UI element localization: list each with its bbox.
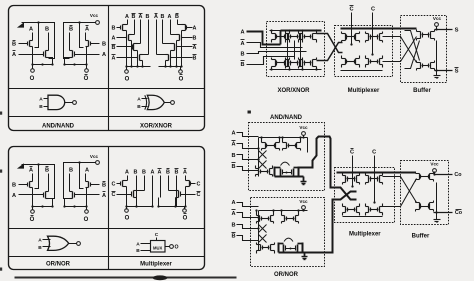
transistor pair MB1 <box>346 60 348 64</box>
wire and bold bottom bus <box>275 176 304 178</box>
transistor X8 <box>170 56 172 60</box>
wire xor gate lead <box>117 46 133 48</box>
wire Q4 drain link <box>70 50 73 52</box>
transistor pair AB1 <box>260 170 262 174</box>
wire Q1 source drop <box>32 47 34 65</box>
transistor pair BUF1 <box>422 33 424 38</box>
wire xor gate lead r <box>187 27 192 29</box>
transistor pair MC1 <box>347 177 349 182</box>
wire xor drain vertical r <box>156 20 158 55</box>
scan artifact bottom smudge <box>15 277 237 279</box>
transistor Q3 <box>90 183 92 187</box>
wire gate lead Q4 <box>75 194 100 196</box>
wire Sbar line <box>435 70 453 72</box>
transistor Q2 <box>43 52 45 57</box>
wire xor inner vertical 3 <box>294 41 296 60</box>
wire C drop <box>372 13 374 55</box>
wire xor top bus <box>270 30 281 32</box>
cross coupling X1 and <box>259 151 267 159</box>
wire mux source drop r <box>185 187 187 207</box>
table 1 row divider upper <box>9 88 205 90</box>
wire Q2 source drop <box>49 199 53 207</box>
wire xor output cross lower <box>317 43 343 61</box>
ground and box <box>301 181 307 183</box>
wire xor drain link <box>140 54 149 56</box>
svg-text:A: A <box>12 52 16 58</box>
svg-text:AND/NAND: AND/NAND <box>270 115 303 121</box>
power flag symbol <box>17 163 24 168</box>
svg-text:O: O <box>183 216 188 222</box>
transistor pair MA1 <box>346 35 348 40</box>
svg-text:B: B <box>136 248 140 254</box>
transistor M1 <box>120 182 122 186</box>
wire mux source drop <box>126 187 128 207</box>
wire xor source drop r <box>176 41 178 67</box>
wire drain riser 4 <box>85 174 87 182</box>
ground buffer top <box>434 75 441 77</box>
wire xor source drop r <box>181 31 183 67</box>
svg-text:O: O <box>84 217 89 223</box>
wire xor source drop r <box>170 51 172 67</box>
transistor pair XB1 <box>276 61 278 66</box>
wire rail corner drop right <box>64 169 70 199</box>
wire input B <box>247 52 307 54</box>
wire xor drain link <box>134 43 141 45</box>
svg-text:A: A <box>193 26 197 32</box>
wire Cobar line <box>434 212 453 214</box>
wire xor drain vertical r <box>162 20 164 44</box>
svg-text:C: C <box>112 182 116 188</box>
table 2 row divider upper <box>9 228 205 230</box>
wire input lead <box>237 144 259 149</box>
transistor pair BUF4 <box>420 204 422 209</box>
wire input lead <box>237 203 259 207</box>
wire mux drain vertical r <box>160 176 162 198</box>
wire Q2 source drop <box>49 58 53 65</box>
svg-text:C: C <box>372 150 376 156</box>
wire mux drain link <box>123 180 128 182</box>
svg-text:A: A <box>136 241 140 247</box>
transistor X2 <box>126 36 128 40</box>
transistor pair XA2 <box>290 35 292 39</box>
svg-text:A: A <box>29 27 33 33</box>
wire xor drain vertical r <box>177 20 179 25</box>
transistor pair MD2 <box>370 208 372 212</box>
svg-text:B: B <box>137 104 141 110</box>
svg-text:A: A <box>231 131 235 137</box>
wire rail drop 1 <box>35 23 39 48</box>
wire input Bbar <box>247 57 295 65</box>
svg-text:B: B <box>45 27 49 33</box>
wire Vcc rail left segment <box>22 165 55 169</box>
svg-text:A: A <box>139 14 143 20</box>
wire Cbar drop <box>351 13 353 45</box>
wire xor drain vertical <box>134 20 136 35</box>
transistor pair MD1 <box>347 208 349 212</box>
wire mux2 out 2 <box>383 179 417 207</box>
wire drain riser 2 <box>48 174 50 192</box>
table 2 row divider lower <box>9 256 205 258</box>
wire or bold bottom bus <box>279 252 305 254</box>
wire bold NAND output <box>299 137 357 200</box>
wire mux source drop <box>136 198 138 207</box>
transistor X3 <box>132 45 134 50</box>
svg-text:Vcc: Vcc <box>299 199 308 204</box>
wire input A <box>247 32 281 45</box>
wire Vcc drop buffer <box>436 27 438 30</box>
wire rail corner drop <box>49 29 55 59</box>
svg-text:B: B <box>69 27 73 33</box>
wire Q2 drain link <box>46 191 49 193</box>
wire xor output cross upper <box>317 34 343 53</box>
svg-text:A: A <box>193 45 197 51</box>
wire S line <box>435 29 453 31</box>
wire xor gate lead r <box>177 46 192 48</box>
svg-text:A: A <box>38 238 42 244</box>
wire input lead <box>237 225 259 229</box>
svg-text:Vcc: Vcc <box>90 13 99 18</box>
svg-text:C: C <box>112 192 116 198</box>
table 2 column divider <box>108 147 110 270</box>
wire xor gate lead r <box>182 37 192 39</box>
Multiplexer dashed box (bottom right) <box>335 168 395 223</box>
wire gate lead Q2 <box>19 54 44 56</box>
svg-text:Multiplexer: Multiplexer <box>140 262 172 268</box>
wire gate lead Q3 <box>91 43 100 45</box>
svg-text:O: O <box>84 76 89 82</box>
svg-text:A: A <box>137 97 141 103</box>
svg-text:Buffer: Buffer <box>412 234 430 240</box>
svg-text:B: B <box>175 14 179 20</box>
svg-text:Multiplexer: Multiplexer <box>349 232 381 238</box>
transistor pair OB1 <box>262 246 264 250</box>
wire mux drain vertical <box>136 176 138 187</box>
wire mux source drop r <box>175 198 177 207</box>
svg-text:MUX: MUX <box>153 245 163 250</box>
wire input lead <box>237 155 259 160</box>
wire xor source drop <box>142 61 144 67</box>
wire vcc drop or <box>303 210 305 211</box>
transistor Q4 <box>74 52 76 57</box>
svg-text:A: A <box>12 193 16 199</box>
wire input Abar <box>247 43 303 48</box>
wire drain riser 2 <box>48 33 50 51</box>
wire Q3 source drop <box>86 47 87 65</box>
svg-text:A: A <box>240 30 244 36</box>
transistor X6 <box>181 36 183 40</box>
svg-text:A: A <box>125 14 129 20</box>
Buffer dashed box (top right) <box>401 16 447 83</box>
svg-text:Buffer: Buffer <box>413 88 431 94</box>
wire mux feed verticals left <box>136 187 138 207</box>
wire xor output bus right <box>159 66 182 68</box>
svg-text:O: O <box>30 76 35 82</box>
wire input lead <box>237 133 259 137</box>
node output O right <box>86 65 88 69</box>
svg-text:A: A <box>154 14 158 20</box>
Buffer dashed box (bottom right) <box>401 161 449 225</box>
transistor M4 <box>180 192 182 197</box>
svg-text:A: A <box>240 41 244 47</box>
node xor output Obar <box>180 67 182 70</box>
table 1 border <box>9 6 205 131</box>
wire Q1 drain link <box>30 181 33 183</box>
svg-text:B: B <box>134 170 138 176</box>
transistor pair MA2 <box>370 35 372 40</box>
power flag symbol <box>17 22 24 27</box>
wire rail drop 1 <box>35 165 39 189</box>
svg-text:B: B <box>12 42 16 48</box>
svg-text:A: A <box>112 36 116 42</box>
svg-text:Multiplexer: Multiplexer <box>348 88 380 94</box>
svg-text:OR/NOR: OR/NOR <box>274 272 299 278</box>
svg-text:A: A <box>168 14 172 20</box>
svg-text:A: A <box>151 170 155 176</box>
wire input A bold riser <box>280 31 282 45</box>
wire input lead <box>237 236 259 241</box>
wire mux drain link <box>134 190 145 192</box>
wire mux2 bottom bus <box>343 216 383 218</box>
svg-text:B: B <box>231 223 235 229</box>
transistor pair AB2 bold H-frame <box>274 167 276 177</box>
svg-text:B: B <box>142 170 146 176</box>
wire rail corner drop <box>49 169 55 199</box>
wire Cbar drop bottom <box>352 156 354 187</box>
svg-text:O: O <box>179 77 184 83</box>
svg-text:Vcc: Vcc <box>90 154 99 159</box>
wire and right vertical <box>307 138 309 153</box>
svg-text:B: B <box>166 170 170 176</box>
node xor output O <box>126 67 128 70</box>
transistor pair OB2 bold H-frame <box>278 243 280 253</box>
wire mux drain vertical r <box>176 176 178 187</box>
wire output bus right <box>65 64 87 66</box>
svg-text:A: A <box>85 168 89 174</box>
wire xor top bus bold <box>281 30 322 32</box>
transistor X1 <box>120 26 122 30</box>
OR/NOR dashed box <box>251 198 325 267</box>
wire drain riser <box>32 33 34 41</box>
transistor pair OA2 <box>286 217 288 221</box>
wire rail drop 2 <box>80 163 84 189</box>
XOR/XNOR dashed box (top right) <box>267 22 325 77</box>
svg-text:A: A <box>125 170 129 176</box>
wire Vcc drop buffer 2 <box>434 172 436 175</box>
wire buffer2 right vertical <box>436 183 438 220</box>
wire and left vertical <box>258 138 260 177</box>
wire bold NOR output <box>303 192 357 253</box>
svg-text:C: C <box>349 7 353 13</box>
svg-text:B: B <box>175 170 179 176</box>
svg-text:B: B <box>193 56 197 62</box>
transistor X4 <box>137 56 139 60</box>
transistor Q3 <box>90 42 92 46</box>
wire C drop bottom <box>374 156 376 203</box>
cross coupling X2 and <box>259 161 267 169</box>
wire mux drain vertical <box>127 176 129 181</box>
Multiplexer dashed box (top right) <box>335 26 393 77</box>
wire buffer cross 1 <box>405 31 420 61</box>
svg-text:B: B <box>112 45 116 51</box>
node mux output Obar <box>184 207 186 210</box>
node mux output O <box>126 207 128 210</box>
transistor M2 <box>131 192 133 197</box>
wire drain riser 4 <box>85 33 87 41</box>
wire xor drain vertical r <box>170 20 172 35</box>
svg-text:C: C <box>350 150 354 156</box>
svg-text:S: S <box>455 28 459 34</box>
wire mux top bus bold <box>341 28 383 30</box>
ground or box <box>302 256 308 258</box>
wire drain riser <box>32 174 34 182</box>
node output O left <box>32 65 34 69</box>
wire gate lead Q1 <box>19 43 28 45</box>
wire vcc drop and <box>303 136 305 138</box>
svg-text:A: A <box>231 200 235 206</box>
svg-text:B: B <box>231 153 235 159</box>
transistor pair MB2 <box>370 60 372 64</box>
wire xor gate lead <box>117 27 121 29</box>
transistor Q2 <box>43 193 45 198</box>
transistor Q4 <box>74 193 76 198</box>
svg-text:C: C <box>197 182 201 188</box>
table 2 border <box>9 147 205 270</box>
transistor pair BUF2 <box>422 64 424 68</box>
svg-text:AND/NAND: AND/NAND <box>42 124 75 130</box>
svg-text:A: A <box>231 142 235 148</box>
wire gate lead Q4 <box>75 54 100 56</box>
svg-text:B: B <box>146 14 150 20</box>
transistor pair OA1 <box>261 217 263 221</box>
svg-text:A: A <box>102 52 106 58</box>
wire mux drain vertical r <box>168 176 170 191</box>
svg-text:Co: Co <box>454 172 462 178</box>
wire mux drain vertical <box>152 176 154 198</box>
svg-text:B: B <box>45 168 49 174</box>
svg-text:C: C <box>371 7 375 13</box>
wire xor gate lead <box>117 37 127 39</box>
scan artifact dot <box>248 111 251 114</box>
wire mux feed verticals right <box>176 187 178 207</box>
svg-text:B: B <box>240 62 244 68</box>
svg-text:A: A <box>85 27 89 33</box>
svg-text:A: A <box>231 211 235 217</box>
wire mux2 out 1 <box>383 177 417 203</box>
wire Q4 source drop <box>65 199 70 207</box>
wire xor drain link <box>123 24 128 26</box>
wire mux gate lead r <box>191 183 196 185</box>
svg-text:S: S <box>455 69 459 75</box>
wire xor source drop <box>137 51 139 67</box>
scan artifact left ticks <box>0 112 2 115</box>
wire xor source drop <box>126 31 128 67</box>
wire xor drain link r <box>171 34 180 36</box>
wire rail corner drop right <box>64 29 70 59</box>
wire Q1 source drop <box>32 188 34 207</box>
transistor Q1 <box>27 42 29 46</box>
wire Q4 drain link <box>70 191 73 193</box>
wire mux gate lead <box>117 194 132 196</box>
transistor pair AA2 <box>288 144 290 148</box>
wire Vcc rail right segment <box>64 163 96 169</box>
wire mux drain link r <box>186 180 190 182</box>
wire or top bus <box>259 210 308 212</box>
svg-text:B: B <box>69 168 73 174</box>
wire buffer cross 2 <box>405 41 420 69</box>
svg-text:B: B <box>132 14 136 20</box>
wire mux drain vertical r <box>185 176 187 181</box>
cross coupling X1 or <box>259 225 267 233</box>
node output O left <box>32 207 34 210</box>
svg-text:B: B <box>193 36 197 42</box>
wire mux gate lead r <box>181 194 196 196</box>
wire gate lead Q3 <box>91 184 100 186</box>
wire or left vertical <box>258 211 260 251</box>
wire xor output bus left <box>127 66 151 68</box>
wire Q3 drain link <box>86 40 89 42</box>
wire xor source drop r <box>165 61 167 67</box>
svg-text:B: B <box>231 164 235 170</box>
wire mux-buffer bold <box>383 28 417 30</box>
transistor pair MC2 <box>370 177 372 182</box>
wire mux out 1 <box>383 37 417 63</box>
svg-text:A: A <box>183 170 187 176</box>
svg-text:O: O <box>174 245 178 251</box>
svg-text:Vcc: Vcc <box>430 162 439 167</box>
wire xor drain link r <box>163 43 175 45</box>
svg-text:C: C <box>155 232 159 238</box>
wire Q3 drain link <box>86 181 89 183</box>
svg-text:O: O <box>125 77 130 83</box>
wire Q2 drain link <box>46 50 49 52</box>
wire xor drain link <box>129 34 135 36</box>
svg-text:A: A <box>39 97 43 103</box>
svg-text:C: C <box>197 192 201 198</box>
wire Vcc rail left segment <box>22 23 55 29</box>
svg-text:Vcc: Vcc <box>433 16 442 21</box>
AND/NAND dashed box <box>249 123 325 191</box>
wire output bus left <box>33 64 53 66</box>
transistor pair XB2 <box>290 61 292 66</box>
svg-text:B: B <box>112 26 116 32</box>
wire xor drain link r <box>178 24 186 26</box>
wire Q1 drain link <box>30 40 33 42</box>
svg-text:B: B <box>102 42 106 48</box>
wire drain riser 3 <box>69 174 71 192</box>
transistor pair XA3 <box>304 35 306 39</box>
transistor pair BUF3 <box>420 175 422 179</box>
svg-text:B: B <box>231 234 235 240</box>
wire mux drain link r <box>169 190 179 192</box>
wire Q4 source drop <box>65 58 70 65</box>
wire buffer right vertical <box>436 41 438 76</box>
wire mux bottom bus <box>341 70 383 72</box>
svg-text:Vcc: Vcc <box>299 125 308 130</box>
svg-text:A: A <box>102 193 106 199</box>
wire input lead <box>237 167 259 171</box>
svg-text:B: B <box>38 245 42 251</box>
wire mux output bus left <box>127 206 153 208</box>
wire drain riser 3 <box>69 33 71 51</box>
wire input lead <box>237 213 259 218</box>
wire Co line <box>434 174 453 176</box>
wire rail drop 2 <box>80 23 84 48</box>
svg-text:O: O <box>30 217 35 223</box>
transistor Q1 <box>27 183 29 187</box>
wire and ground stem <box>303 177 305 182</box>
transistor pair XA1 <box>276 35 278 39</box>
transistor X7 <box>176 45 178 50</box>
